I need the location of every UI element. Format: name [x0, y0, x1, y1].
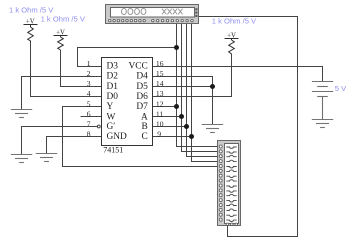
svg-text:14: 14 — [156, 79, 164, 88]
svg-text:VCC: VCC — [129, 62, 148, 72]
svg-text:10: 10 — [156, 119, 164, 128]
svg-text:+V: +V — [26, 19, 35, 26]
svg-text:D5: D5 — [136, 82, 148, 92]
svg-text:15: 15 — [156, 69, 164, 78]
svg-text:12: 12 — [156, 99, 164, 108]
svg-text:1 k Ohm /5 V: 1 k Ohm /5 V — [9, 6, 54, 15]
svg-text:D3: D3 — [107, 62, 119, 72]
svg-text:D1: D1 — [107, 82, 119, 92]
svg-text:G′: G′ — [107, 122, 116, 132]
svg-text:74151: 74151 — [103, 146, 123, 155]
svg-text:D4: D4 — [136, 72, 148, 82]
svg-text:5: 5 — [87, 99, 91, 108]
svg-text:D7: D7 — [136, 102, 148, 112]
svg-text:A: A — [141, 112, 148, 122]
svg-text:5 V: 5 V — [335, 84, 347, 93]
svg-text:C: C — [142, 132, 148, 142]
svg-text:+V: +V — [56, 29, 65, 36]
svg-text:9: 9 — [157, 129, 161, 138]
svg-text:D6: D6 — [136, 92, 148, 102]
svg-text:B: B — [142, 122, 148, 132]
svg-text:1 k Ohm /5 V: 1 k Ohm /5 V — [212, 16, 257, 25]
svg-text:4: 4 — [87, 89, 91, 98]
svg-text:+V: +V — [227, 33, 236, 40]
svg-text:6: 6 — [87, 110, 91, 119]
svg-text:1: 1 — [87, 59, 91, 68]
svg-text:11: 11 — [156, 110, 164, 119]
svg-text:8: 8 — [87, 129, 91, 138]
svg-text:13: 13 — [156, 89, 164, 98]
svg-text:7: 7 — [87, 119, 91, 128]
svg-text:D0: D0 — [107, 92, 119, 102]
svg-text:W: W — [107, 112, 116, 122]
svg-text:3: 3 — [87, 79, 91, 88]
svg-text:D2: D2 — [107, 72, 119, 82]
svg-text:16: 16 — [156, 59, 164, 68]
svg-text:Y: Y — [107, 102, 114, 112]
svg-text:GND: GND — [107, 132, 128, 142]
svg-text:2: 2 — [87, 69, 91, 78]
svg-text:1 k Ohm /5 V: 1 k Ohm /5 V — [41, 15, 86, 24]
